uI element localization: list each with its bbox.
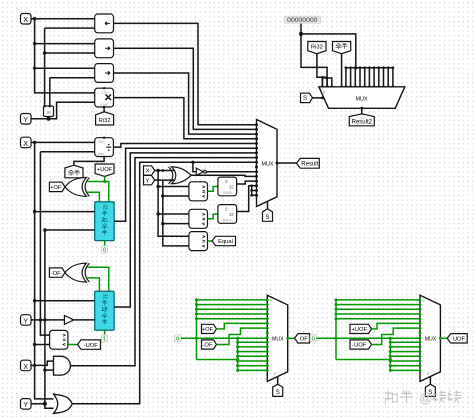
zero bus stub 4 <box>359 68 361 87</box>
green wire input 5 <box>197 318 268 320</box>
wire shift-amount vertical 1 <box>45 27 95 29</box>
wire Y to AND in2 <box>45 369 54 371</box>
svg-text:+OF: +OF <box>202 327 214 333</box>
wire MUX2 output <box>361 108 363 114</box>
svg-text:+UOF: +UOF <box>351 327 367 333</box>
svg-text:X: X <box>146 169 150 175</box>
NOT gate (NOR) <box>196 168 203 175</box>
tunnel -OF <box>202 340 217 349</box>
svg-text:MUX: MUX <box>356 97 368 103</box>
svg-text:S: S <box>265 215 269 221</box>
wire AND out to MUX1 in8 <box>71 158 257 366</box>
MUX1 select stub <box>267 202 269 209</box>
svg-text:upp: upp <box>98 140 104 144</box>
tunnel OF <box>295 334 310 343</box>
zero bus stub 9 <box>383 68 385 87</box>
svg-text:Equal: Equal <box>218 239 233 245</box>
green wire lower input <box>238 346 268 348</box>
pin S (MUX2 select) <box>301 93 313 102</box>
comparator rows input wires <box>158 186 189 188</box>
green wire lower input <box>238 365 268 367</box>
green wire lower input <box>390 360 420 362</box>
svg-text:00000000: 00000000 <box>287 17 317 24</box>
svg-text:0: 0 <box>260 124 262 128</box>
flag subcircuit box2 <box>218 205 237 224</box>
comparator 3 (equal) <box>189 232 208 251</box>
svg-text:0: 0 <box>103 247 106 253</box>
wire shifter2 out to MUX1 in2 <box>114 48 257 129</box>
probe 00000000 <box>284 16 321 23</box>
wire X2 to divider <box>31 141 95 143</box>
multiplexer flags <box>420 295 440 381</box>
green wire output <box>288 337 295 339</box>
subcircuit 32-bit adder <box>95 202 114 241</box>
svg-text:MUX: MUX <box>262 162 274 168</box>
svg-text:rem: rem <box>98 152 104 156</box>
green wire lower input <box>390 341 420 343</box>
green wire input 3 <box>336 308 420 310</box>
svg-text:-OF: -OF <box>203 343 213 349</box>
green wire lower input <box>238 360 268 362</box>
wire Y tunnel to xor <box>155 179 176 181</box>
wire OR out to MUX1 in9 <box>72 162 256 403</box>
wire probe zero to MUX2 inputs 1-3 <box>301 34 327 78</box>
pin S (MUX1 select) <box>263 209 273 222</box>
green wire lower input <box>390 346 420 348</box>
wire tap OR-lane to NOT gate <box>193 162 196 171</box>
zero bus stub 10 <box>387 68 389 87</box>
green constant 0 feed <box>175 335 181 342</box>
svg-text:0: 0 <box>270 299 272 303</box>
svg-text:8'M.B: 8'M.B <box>223 219 232 223</box>
svg-text:0: 0 <box>176 336 179 342</box>
wire X vertical feed <box>35 19 95 93</box>
adder carry-in constant 0 <box>104 241 106 246</box>
comparator 2 <box>189 209 208 228</box>
buffer gate <box>64 315 73 324</box>
input pin X (top) <box>21 14 32 25</box>
svg-text:32: 32 <box>229 185 234 190</box>
svg-text:32: 32 <box>101 294 107 300</box>
zero bus stub 2 <box>350 68 352 87</box>
tunnel Result <box>297 158 320 168</box>
svg-text:Y: Y <box>23 117 28 124</box>
select stub <box>429 377 431 384</box>
divider <box>95 138 114 157</box>
zero bus stub 3 <box>354 68 356 87</box>
green bridge wire bottom <box>336 359 390 361</box>
tunnel Y (logic ops) <box>144 175 155 184</box>
svg-text:X: X <box>23 364 28 371</box>
green wire +UOF to input 6 <box>372 323 421 329</box>
wire Y vertical to adder/and <box>45 230 54 408</box>
wire box2 to MUX1 in14 <box>237 186 257 212</box>
comparator 1 (signed) <box>189 182 208 201</box>
wire NOT out to MUX1 in11 <box>206 171 256 173</box>
zero bus over MUX2 <box>346 67 393 69</box>
xor gate (overflow detect, adder) <box>65 178 87 197</box>
green wire input 1 <box>197 299 268 301</box>
wire subtractor result to MUX1 in7 <box>114 153 256 307</box>
svg-text:Y: Y <box>146 178 150 184</box>
tunnel -UOF <box>350 340 372 349</box>
svg-text:c in: c in <box>102 90 107 94</box>
svg-text:+OF: +OF <box>50 185 62 191</box>
flag subcircuit box1 <box>218 177 237 196</box>
wire Y to comparator in1 <box>40 320 49 335</box>
divider remainder wire to tunnel <box>74 157 104 166</box>
wire xor out to MUX1 in12 <box>191 175 257 176</box>
green wire input 3 <box>197 308 268 310</box>
svg-text:S: S <box>276 390 280 396</box>
green wire input 2 <box>197 304 268 306</box>
green wire lower input <box>238 355 268 357</box>
tunnel +OF <box>49 182 65 191</box>
wire Y4 to OR in2 <box>31 403 45 405</box>
tunnel -OF <box>49 268 65 277</box>
wire adder result to MUX1 in6 <box>114 148 256 221</box>
shifter SHR <box>95 39 114 58</box>
multiplexer MUX2 <box>319 87 405 109</box>
zero bus stub 8 <box>378 68 380 87</box>
bit extender <box>44 106 54 117</box>
green wire lower input <box>238 369 268 371</box>
svg-text:-UOF: -UOF <box>352 343 367 349</box>
zero bus stub 7 <box>373 68 375 87</box>
wire X tunnel to xor <box>155 170 176 172</box>
input pin X (second) <box>21 137 32 148</box>
wire divider second input <box>40 151 94 153</box>
AND gate <box>54 356 71 375</box>
wire shift-amount vertical 2 <box>50 77 95 79</box>
svg-text:0: 0 <box>274 372 276 376</box>
tunnel 余数 (to MUX2) <box>333 42 351 54</box>
green zero wire across <box>317 337 421 339</box>
multiplier c-out wire <box>103 107 105 112</box>
green wire lower input <box>390 365 420 367</box>
wire MUX1 output <box>277 162 297 164</box>
wire Y to multiplier <box>31 102 95 118</box>
svg-text:Y: Y <box>23 402 28 409</box>
tunnel -UOF <box>78 340 101 349</box>
tunnel +UOF <box>350 324 372 333</box>
xor gate X^Y <box>172 167 192 184</box>
green wire lower input <box>238 351 268 353</box>
green wire +OF to input 6 <box>217 323 268 329</box>
zero bus stub 6 <box>368 68 370 87</box>
wire shifter row 2,3 inputs <box>35 43 95 45</box>
wire shifter3 out to MUX1 in3 <box>114 73 257 134</box>
svg-text:Ri32: Ri32 <box>311 44 323 50</box>
svg-text:MUX: MUX <box>272 337 284 343</box>
green bridge wire bottom <box>197 359 238 361</box>
multiplier <box>95 88 114 107</box>
green wire comp2 to flag box2 <box>208 214 218 219</box>
svg-text:Ri32: Ri32 <box>99 118 111 124</box>
wire divider quotient to MUX1 in5 <box>113 144 256 148</box>
green wire lower input <box>390 351 420 353</box>
svg-text:Result2: Result2 <box>352 119 373 125</box>
wire X to shifter row <box>31 18 95 20</box>
svg-text:MUX: MUX <box>425 337 437 343</box>
input pin Y (second) <box>21 315 32 326</box>
wire Y to subtractor in2 (through buffer) <box>31 319 64 321</box>
svg-text:OF: OF <box>300 337 309 343</box>
pin S (select) <box>425 384 435 396</box>
green wire lower input <box>238 341 268 343</box>
tunnel Result2 <box>349 114 374 126</box>
green bus vertical 2 <box>389 338 391 370</box>
multiplexer MUX1 (result select) <box>257 120 278 207</box>
wire X to adder in1 <box>35 211 95 213</box>
svg-text:32: 32 <box>229 212 234 217</box>
svg-text:1: 1 <box>103 337 106 343</box>
input pin Y (shift amount) <box>21 114 32 125</box>
wire Y vertical to comparators <box>163 180 189 246</box>
subtractor borrow-in constant 1 <box>104 330 106 335</box>
tunnel Ri32 (to MUX2) <box>308 42 326 54</box>
green wire input 5 <box>336 318 420 320</box>
green wire input 4 <box>197 313 268 315</box>
wire probe to zero bus <box>300 24 302 34</box>
zero bus stub 5 <box>364 68 366 87</box>
wire box1 to MUX1 in13 <box>237 181 257 184</box>
svg-text:1E: 1E <box>46 110 51 115</box>
watermark <box>385 391 397 403</box>
svg-text:8'M.B: 8'M.B <box>223 191 232 195</box>
green wire input 1 <box>336 299 420 301</box>
svg-text:@: @ <box>419 391 433 406</box>
wire X3 to AND <box>31 361 54 365</box>
green bus vertical 1 <box>335 300 337 360</box>
svg-text:Result: Result <box>301 162 318 168</box>
tunnel UOF <box>447 334 467 343</box>
green wire lower input <box>390 369 420 371</box>
pin S (select) <box>273 384 283 396</box>
svg-text:+UOF: +UOF <box>97 167 113 173</box>
green wire adder overflow to xor <box>88 182 109 202</box>
green wire input 4 <box>336 313 420 315</box>
green zero wire across <box>181 337 267 339</box>
input pin Y (third) <box>21 399 32 410</box>
svg-text:32: 32 <box>101 204 107 210</box>
green wire comparator to -UOF <box>68 344 78 346</box>
wire Y vertical to divider <box>39 152 41 320</box>
svg-text:-OF: -OF <box>51 271 61 277</box>
svg-text:0: 0 <box>423 299 425 303</box>
svg-text:X: X <box>23 141 28 148</box>
svg-text:UOF: UOF <box>453 337 466 343</box>
green constant 0 feed <box>310 335 316 342</box>
tunnel +UOF <box>95 164 114 176</box>
svg-text:Y: Y <box>23 318 28 325</box>
green wire comp3 to Equal tunnel <box>208 240 213 242</box>
green wire comp1 to flag box1 <box>208 187 218 192</box>
wire X vertical to comparators <box>158 171 189 237</box>
OR gate <box>54 394 73 413</box>
select stub <box>277 377 279 384</box>
wire X main vertical <box>35 142 54 399</box>
tunnel X (logic ops) <box>144 166 155 175</box>
svg-text:-UOF: -UOF <box>84 343 99 349</box>
green bus vertical 2 <box>237 338 239 370</box>
wire Y to adder in2 <box>45 229 95 231</box>
green wire lower input <box>390 355 420 357</box>
comparator (unsigned) <box>50 330 68 349</box>
wire X to comparator in2 <box>35 344 50 346</box>
svg-text:S: S <box>303 96 307 102</box>
multiplexer flags <box>267 295 287 381</box>
wire 余数 to MUX2 input <box>341 54 343 87</box>
svg-text:0: 0 <box>323 90 325 94</box>
green wires subtractor overflow to xor <box>88 267 109 291</box>
xor gate (overflow detect, subtractor) <box>65 263 87 282</box>
tunnel Ri32 (below multiplier) <box>96 112 114 125</box>
green wire -UOF to input 7 <box>372 328 421 344</box>
tunnel Equal <box>212 236 236 245</box>
shifter ASHR <box>95 64 114 83</box>
wire Ri32 to MUX2 inputs <box>317 54 327 78</box>
zero bus stub 1 <box>345 68 347 87</box>
tunnel +OF <box>202 324 217 333</box>
shifter SHL <box>95 14 114 33</box>
green wire +UOF to adder carry <box>104 176 106 181</box>
wire X to subtractor in1 <box>35 300 95 302</box>
wire shifter1 out to MUX1 in1 <box>114 23 257 124</box>
green wire output <box>440 337 447 339</box>
green wire input 2 <box>336 304 420 306</box>
subcircuit 32-bit subtractor <box>95 291 114 330</box>
green bus vertical 1 <box>196 300 198 360</box>
stub wires MUX1 in15 in16 <box>251 186 253 195</box>
svg-text:X: X <box>23 17 28 24</box>
green wire -OF to input 7 <box>217 328 268 344</box>
svg-text:0: 0 <box>427 372 429 376</box>
input pin X (third) <box>21 360 32 371</box>
zero bus stub 11 <box>392 68 394 87</box>
tunnel 余数 (remainder) <box>65 165 83 178</box>
wire multiplier out to MUX1 in4 <box>114 98 257 139</box>
svg-text:0: 0 <box>312 336 315 342</box>
